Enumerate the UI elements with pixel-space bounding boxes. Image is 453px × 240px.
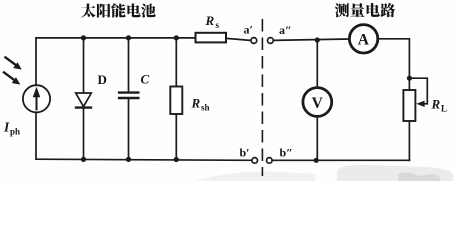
- node junction (83.5,159.4): [81, 157, 86, 162]
- node junction (83.5,37.9): [81, 35, 86, 40]
- light arrow 1: [5, 57, 22, 70]
- terminal b-doubleprime: [267, 158, 273, 164]
- svg-text:C: C: [141, 72, 150, 87]
- ammeter A: [349, 25, 377, 53]
- wire left vertical: [35, 38, 37, 159]
- svg-text:a″: a″: [279, 23, 292, 37]
- wire Rsh branch: [175, 38, 177, 160]
- diode D: [75, 93, 92, 108]
- svg-text:s: s: [216, 20, 220, 30]
- resistor RL: [403, 90, 415, 121]
- terminal b-prime: [252, 158, 258, 164]
- resistor Rs: [196, 33, 227, 43]
- wire voltmeter branch bottom: [316, 118, 318, 161]
- node junction (128.5,159.4): [126, 157, 131, 162]
- svg-text:A: A: [358, 32, 370, 49]
- svg-text:a′: a′: [244, 23, 253, 37]
- separator dashed line: [261, 19, 263, 176]
- svg-text:ph: ph: [10, 127, 20, 137]
- wire diode branch: [83, 38, 85, 159]
- wire RL bottom to bottom rail: [408, 121, 410, 160]
- svg-text:D: D: [98, 72, 107, 87]
- svg-text:R: R: [431, 97, 441, 112]
- light arrow 2: [3, 72, 20, 85]
- svg-text:R: R: [191, 96, 201, 111]
- wire RL wiper branch: [409, 78, 427, 104]
- resistor Rsh: [170, 87, 182, 115]
- node junction (176.3,37.9): [174, 35, 179, 40]
- node junction (316.2,160.3): [314, 158, 319, 163]
- label title solar-cell (太阳能电池): [81, 3, 95, 17]
- svg-text:L: L: [441, 104, 447, 114]
- node junction (317.3,40): [315, 37, 320, 42]
- svg-text:b″: b″: [280, 146, 293, 160]
- wire top rail left: [36, 37, 196, 39]
- label title measurement-circuit (测量电路): [335, 3, 349, 17]
- wire voltmeter branch top: [316, 40, 318, 86]
- node junction (128.5,37.9): [126, 35, 131, 40]
- wire Rs to terminal a-prime: [226, 38, 251, 40]
- svg-text:R: R: [205, 13, 215, 28]
- svg-text:I: I: [3, 120, 10, 135]
- current source Iph circle: [23, 85, 50, 112]
- wire a-doubleprime to ammeter: [273, 39, 348, 40]
- terminal a-prime: [251, 38, 257, 44]
- wire capacitor branch: [128, 38, 130, 159]
- wire bottom rail left: [36, 159, 252, 160]
- node junction (409.4,78.2): [407, 76, 412, 81]
- voltmeter V: [303, 88, 332, 117]
- wire bottom rail right: [272, 159, 409, 161]
- svg-text:sh: sh: [201, 103, 210, 113]
- terminal a-doubleprime: [268, 38, 274, 44]
- decorative watermark: [195, 171, 315, 181]
- svg-text:V: V: [312, 95, 324, 112]
- svg-text:b′: b′: [240, 146, 250, 160]
- RL wiper arrowhead: [416, 101, 424, 107]
- node junction (176.3,159.5): [174, 157, 179, 162]
- wire ammeter to right corner: [379, 39, 410, 90]
- current source arrow: [33, 87, 41, 111]
- capacitor C: [118, 93, 140, 98]
